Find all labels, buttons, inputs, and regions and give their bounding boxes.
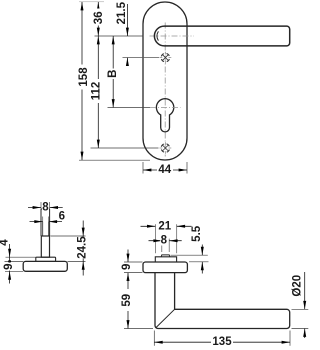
neck outer lines [41,209,50,236]
rose disc (front) [143,262,187,273]
svg-text:158: 158 [78,67,90,87]
screw S1 (phillips symbol) [160,52,172,64]
neck inner lines [43,222,49,236]
flange [36,257,56,261]
svg-text:21.5: 21.5 [116,1,128,24]
extension line y=261.4 right (rose top) [68,260,86,262]
screw S2 (phillips symbol, bottom) [160,142,172,154]
svg-text:5.5: 5.5 [191,225,203,242]
dimension 5.5 [201,245,203,274]
dimension 9 (label on line, up arrow below) [9,257,11,283]
rose disc (side) [23,261,67,271]
dimension 21.5 lower segment with up arrow [126,58,128,66]
dimension d20 [304,272,306,338]
dimension 21 [141,225,192,227]
extension lines above inner (6) [43,217,49,223]
svg-text:112: 112 [90,82,102,101]
svg-text:24.5: 24.5 [76,236,88,259]
miter seam line [156,309,174,327]
extension line y=148 (bottom screw axis) [91,147,159,149]
euro profile cylinder hole [156,99,173,132]
spindle bump [161,255,170,257]
label 112 [92,79,102,103]
svg-text:44: 44 [158,164,171,176]
extension line y=160 (plate bottom) [79,159,150,161]
extension lines for 44 [143,162,187,174]
lever handle (top view) [154,26,289,46]
extension line y=57.5 (top screw axis) [123,57,160,59]
dimension 24.5 [82,221,84,276]
extension lines for diameter 20 [292,308,309,310]
dimension 36 line [97,2,99,36]
svg-text:135: 135 [212,336,232,348]
svg-text:4: 4 [0,239,10,246]
dimension 44 line [143,169,187,171]
svg-text:B: B [107,70,119,78]
extension lines for 135 [154,331,290,346]
dimension 59 [127,273,129,329]
extension lines above neck (8) [41,202,50,209]
dimension 158 line [81,2,83,160]
label 158 [79,65,89,90]
extension lines for 8 [162,239,169,252]
centerline vertical of plate [164,23,166,157]
extension line rose top y=261.4 [5,260,24,262]
extension lines left: rose top / rose bottom / grip bottom [124,261,143,263]
label B [109,69,119,80]
label 44 [157,165,173,176]
dimension 21.5 line (upper segment with down arrow) [126,4,128,36]
svg-text:59: 59 [121,294,133,307]
label 36 [94,9,104,26]
centerline horizontal through cylinder [150,107,181,109]
svg-text:6: 6 [59,210,65,222]
centerline horizontal through handle hub [150,35,195,37]
extension line rose top right y=262 [189,261,209,263]
handle neck and grip (L-shape) [155,273,290,329]
dimension 112 line [97,36,99,148]
dimension B line [112,36,114,108]
svg-text:9: 9 [3,263,15,269]
extension line y=107.5 (cylinder axis) [108,107,151,109]
dimension 9 (front view) [127,250,129,263]
svg-text:8: 8 [161,235,168,247]
collar [155,257,176,262]
extension line flange top y=257.2 [6,256,36,258]
dimension 135 [154,341,290,343]
extension line y=2 (plate top) [79,1,104,3]
dimension 8 (top) [28,207,63,209]
extension line bump top y=255.2 [171,254,208,256]
chain dot terminator [8,260,11,263]
svg-text:Ø20: Ø20 [292,275,304,297]
svg-text:21: 21 [158,220,171,232]
plate outline (stadium 44x158) [143,2,187,160]
dimension 4 (label + down arrow) [9,244,11,257]
extension line rose bottom y=271.3 [5,270,23,272]
extension line y=236 right (spindle top) [51,235,86,237]
spindle collar box [41,236,49,257]
lever end-cap inner arc [157,31,159,40]
svg-text:9: 9 [121,264,133,270]
extension lines for 21 [155,224,176,253]
label 9 [123,263,133,271]
dimension 8 [149,240,182,242]
dimension 6 [30,221,63,223]
svg-text:8: 8 [42,202,49,214]
svg-text:36: 36 [93,11,105,24]
extension line y=36 (handle axis) [95,35,144,37]
